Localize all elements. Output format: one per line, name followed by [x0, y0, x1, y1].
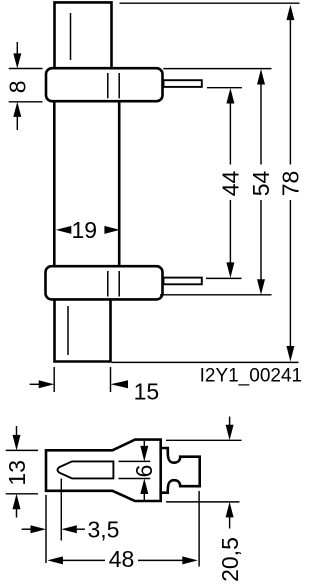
svg-text:78: 78 [278, 171, 304, 197]
band clip 2 [46, 266, 163, 299]
dimension 6 extension lines [119, 460, 151, 462]
dimension 20,5 extension lines [166, 439, 242, 441]
bottom tube highlight line [67, 306, 69, 355]
band 1 inner lines [107, 73, 109, 98]
band clip 1 [46, 68, 163, 101]
extension line top (78 dim) [120, 2, 300, 4]
dimension 44 line and arrows [226, 88, 234, 104]
dimension 54 line and arrows [257, 69, 265, 85]
svg-text:44: 44 [218, 171, 244, 197]
svg-text:6: 6 [131, 465, 157, 478]
clip right edge line [159, 448, 162, 493]
dimension 13 arrows [16, 426, 18, 437]
fuse top tube section [55, 2, 112, 68]
svg-text:48: 48 [109, 546, 135, 572]
dimension 48 extension line right [198, 491, 200, 567]
top tube highlight line [70, 13, 72, 60]
terminal tab 2 [164, 278, 202, 285]
bottom tube section [55, 299, 111, 361]
dimension 44 extension lines [207, 87, 242, 89]
svg-text:8: 8 [4, 81, 30, 94]
dimension 20,5 arrows [229, 417, 231, 428]
svg-text:54: 54 [248, 171, 274, 197]
svg-text:20,5: 20,5 [217, 537, 243, 582]
extension line bottom (78 dim) [112, 361, 299, 363]
dimension 3,5 arrows [22, 528, 33, 530]
svg-text:13: 13 [4, 460, 30, 486]
middle tube section [53, 101, 56, 266]
band 2 inner lines [107, 271, 109, 297]
svg-text:I2Y1_00241: I2Y1_00241 [200, 365, 303, 386]
svg-text:19: 19 [72, 217, 98, 243]
clip body outline (bottom view) [46, 440, 200, 501]
dimension 8 arrows [16, 42, 18, 55]
dimension 54 extension lines [163, 68, 271, 70]
clip slot (bullet shaped hole) [58, 461, 114, 478]
dimension 6 arrows [143, 441, 145, 449]
terminal tab 1 [164, 80, 202, 87]
dimension 19 arrows [56, 226, 72, 234]
dimension 13 extension lines [6, 449, 38, 451]
dimension 15 arrows [30, 383, 41, 385]
dimension 3,5 extension lines [45, 495, 47, 563]
dimension 15 extension lines [53, 367, 55, 392]
dimension 8 extension lines [9, 68, 43, 70]
dimension 48 line and arrows [47, 556, 63, 564]
dimension 78 line and arrows [286, 5, 294, 21]
svg-text:3,5: 3,5 [88, 516, 120, 542]
svg-text:15: 15 [134, 379, 160, 405]
